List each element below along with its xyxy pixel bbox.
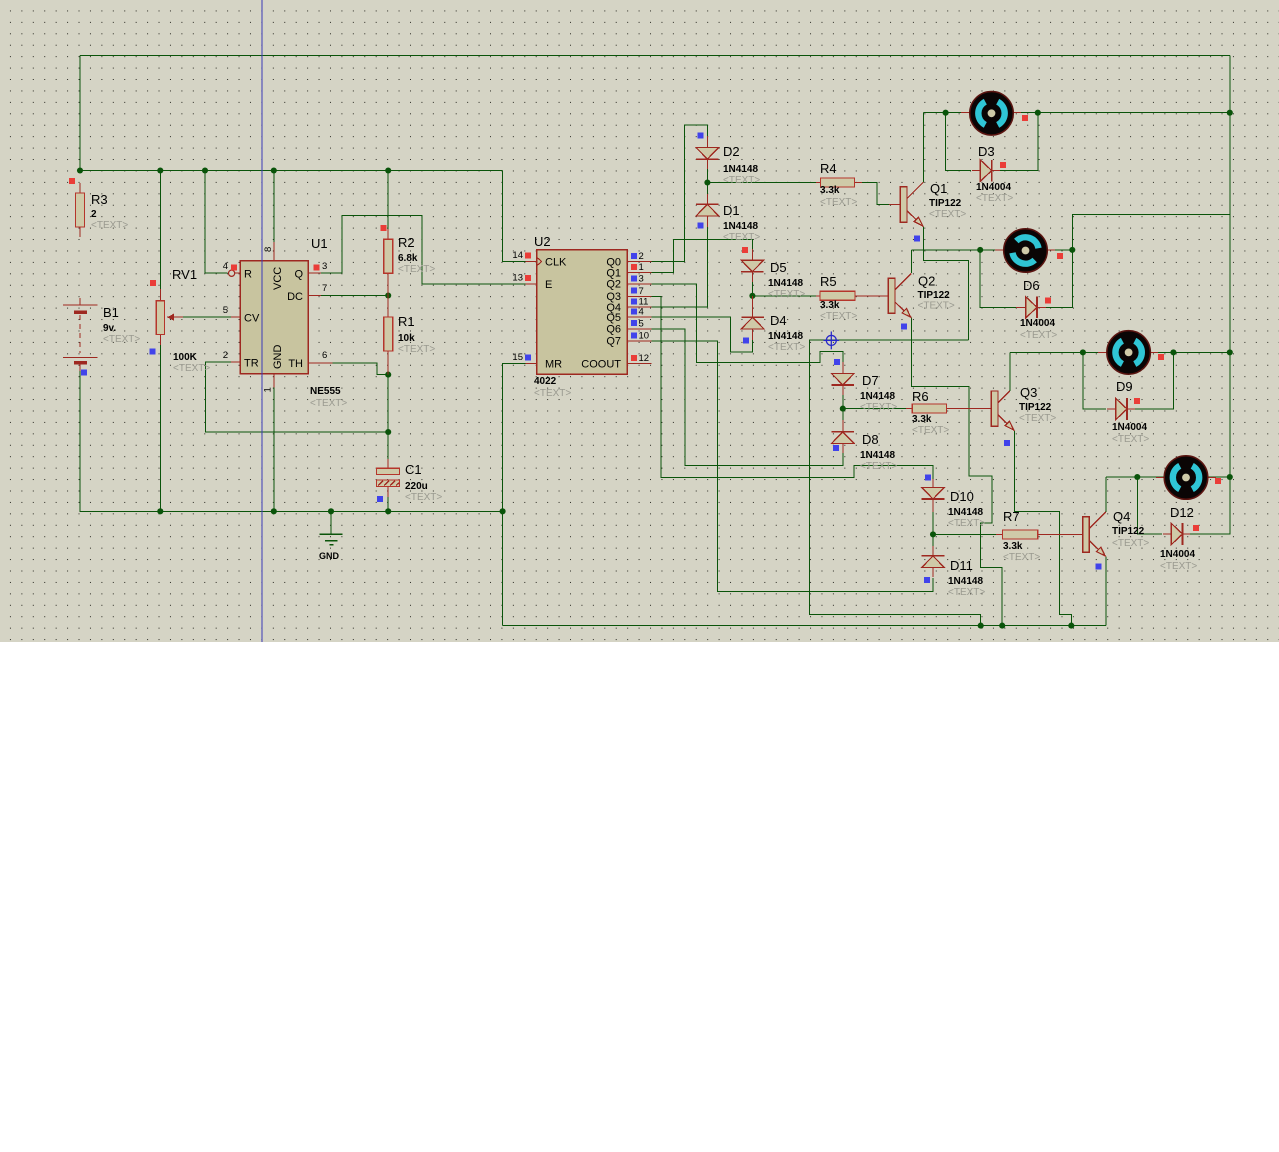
motor M1: [970, 92, 1014, 136]
svg-text:<TEXT>: <TEXT>: [1112, 434, 1149, 445]
svg-text:14: 14: [512, 250, 523, 261]
marker D4: [743, 338, 749, 344]
marker D11: [924, 577, 930, 583]
junction M3 row / right rail: [1227, 349, 1233, 355]
U2 pin 10 Q7 stub: [627, 340, 651, 342]
lead D12: [1163, 533, 1171, 535]
diode D2: [696, 148, 719, 160]
svg-text:Q1: Q1: [930, 181, 947, 196]
junction M2 row / D6 left: [977, 247, 983, 253]
svg-text:E: E: [545, 279, 552, 291]
wire Q1 collector riser: [923, 113, 925, 183]
svg-text:<TEXT>: <TEXT>: [398, 264, 435, 275]
wire rail to R2 top: [387, 171, 389, 231]
marker R2: [381, 225, 387, 231]
lead D2: [706, 136, 708, 148]
lead motor M2: [995, 249, 1004, 251]
marker C1: [377, 496, 383, 502]
svg-text:9v.: 9v.: [103, 323, 116, 334]
wire Q2 collector riser: [911, 250, 913, 273]
wire U1 TH to R1 node: [330, 363, 388, 375]
ground symbol: [330, 511, 332, 534]
U2 pin 1 Q1 stub: [627, 272, 651, 274]
svg-text:<TEXT>: <TEXT>: [1020, 330, 1057, 341]
marker D10: [925, 475, 931, 481]
svg-text:1N4148: 1N4148: [948, 507, 983, 518]
wire node to R6: [843, 408, 908, 410]
wire D9 left riser: [1083, 352, 1106, 409]
lead D3: [972, 170, 980, 172]
wire D3 left riser: [946, 113, 971, 171]
junction M3 row / D9 right: [1170, 349, 1176, 355]
wire R4 to Q1 base: [854, 183, 891, 205]
svg-text:1N4148: 1N4148: [860, 391, 895, 402]
U1 pin 2 TR stub: [231, 361, 240, 363]
marker M1: [1022, 115, 1028, 121]
svg-text:1N4148: 1N4148: [948, 576, 983, 587]
wire C1 to ground rail: [387, 488, 389, 511]
junction M1 row / right rail: [1227, 110, 1233, 116]
svg-text:TIP122: TIP122: [918, 290, 951, 301]
wire battery+ to top rail: [79, 56, 81, 171]
svg-text:MR: MR: [545, 359, 562, 371]
svg-text:C1: C1: [405, 462, 422, 477]
diode D3: [980, 160, 991, 182]
wire D6 left riser: [980, 250, 1018, 307]
diode D11: [922, 556, 945, 568]
svg-text:1N4148: 1N4148: [768, 331, 803, 342]
junction D5 D4 R5 node: [749, 293, 755, 299]
wire +9V top rail: [80, 55, 1230, 57]
wire M2 row: [912, 249, 1073, 251]
svg-text:B1: B1: [103, 305, 119, 320]
origin marker: [824, 332, 840, 350]
svg-text:<TEXT>: <TEXT>: [820, 311, 857, 322]
potentiometer RV1: [156, 301, 164, 335]
U1 pin 4 R stub with inversion bubble: [235, 272, 240, 274]
wire rail to RV1 top: [159, 171, 161, 291]
diode D1: [696, 204, 719, 216]
junction ground / RV1: [157, 508, 163, 514]
motor M3: [1107, 331, 1151, 375]
svg-text:TH: TH: [288, 358, 303, 370]
diode D5: [741, 260, 764, 272]
lead motor M4: [1156, 477, 1164, 479]
lead C1: [387, 459, 389, 468]
wire node to R4: [707, 182, 816, 184]
svg-text:<TEXT>: <TEXT>: [173, 363, 210, 374]
resistor R6: [912, 404, 946, 413]
wire node to R7: [933, 533, 998, 535]
wire RV1 bottom to ground rail: [159, 336, 161, 511]
svg-text:D10: D10: [950, 489, 974, 504]
svg-text:<TEXT>: <TEXT>: [820, 197, 857, 208]
svg-text:U1: U1: [311, 236, 328, 251]
svg-text:1N4004: 1N4004: [976, 182, 1011, 193]
svg-text:<TEXT>: <TEXT>: [310, 398, 347, 409]
wire Q2 emitter return: [912, 318, 1003, 626]
marker D3: [1000, 162, 1006, 168]
svg-text:COOUT: COOUT: [581, 359, 621, 371]
junction M1 row / D3 left: [943, 110, 949, 116]
svg-text:3: 3: [322, 261, 327, 272]
resistor R5: [820, 291, 855, 300]
junction ground / U1 GND: [271, 508, 277, 514]
marker R3: [69, 178, 75, 184]
svg-text:6.8k: 6.8k: [398, 253, 418, 264]
svg-text:<TEXT>: <TEXT>: [1019, 413, 1056, 424]
svg-text:<TEXT>: <TEXT>: [912, 425, 949, 436]
marker U2 output pins: [631, 253, 637, 259]
transistor Q3: [991, 391, 998, 426]
svg-text:2: 2: [223, 350, 228, 361]
svg-text:DC: DC: [287, 291, 303, 303]
wire RV1 wiper to U1 CV: [181, 316, 232, 318]
svg-text:5: 5: [223, 305, 228, 316]
wire U2 Q3 to D10: [649, 296, 933, 487]
junction rail / U1 reset: [202, 167, 208, 173]
wire D6 right riser: [1044, 250, 1072, 307]
transistor Q4: [1083, 517, 1090, 552]
junction ground / GND symbol: [328, 508, 334, 514]
marker D6: [1045, 298, 1051, 304]
marker Q3: [1004, 440, 1010, 446]
U2 pin 15 MR stub: [525, 363, 536, 365]
diode D9: [1116, 398, 1127, 420]
svg-text:TIP122: TIP122: [1019, 402, 1052, 413]
svg-text:1N4004: 1N4004: [1160, 549, 1195, 560]
wire right motor supply rail: [1229, 56, 1231, 477]
U2 clock chevron: [537, 257, 542, 266]
marker B1: [81, 369, 87, 375]
wire D5-D4 node: [751, 272, 753, 306]
svg-text:<TEXT>: <TEXT>: [1160, 561, 1197, 572]
wire Q1 emitter return: [924, 226, 969, 340]
lead D5: [751, 249, 753, 260]
svg-text:VCC: VCC: [272, 267, 284, 290]
junction D7 D8 R6 node: [840, 406, 846, 412]
svg-text:TIP122: TIP122: [929, 198, 962, 209]
wire M4 row: [1106, 476, 1230, 478]
wire D2-D1 node: [706, 159, 708, 204]
U1 pin 3 Q stub: [308, 272, 321, 274]
junction M4 row / right rail: [1227, 474, 1233, 480]
svg-text:13: 13: [512, 272, 523, 283]
svg-text:<TEXT>: <TEXT>: [948, 587, 985, 598]
svg-text:<TEXT>: <TEXT>: [918, 301, 955, 312]
U1 pin 1 GND stub: [273, 374, 275, 388]
lead D11: [932, 546, 934, 556]
svg-text:1N4004: 1N4004: [1112, 422, 1147, 433]
junction rail / U1 VCC: [271, 167, 277, 173]
svg-text:Q5: Q5: [606, 312, 621, 324]
wire node to R5: [752, 295, 816, 297]
lead D1: [706, 194, 708, 204]
wire D12 right riser rail: [1188, 477, 1230, 534]
wire D3 right riser: [999, 113, 1038, 171]
wire U2 MR to ground: [503, 364, 527, 626]
marker RV1 bottom: [150, 349, 156, 355]
U1 pin 6 TH stub: [308, 362, 333, 364]
svg-text:1N4004: 1N4004: [1020, 318, 1055, 329]
blue axis line: [261, 0, 263, 642]
junction D2 D1 R4 node: [704, 179, 710, 185]
svg-text:CV: CV: [244, 313, 260, 325]
motor M4: [1164, 456, 1208, 500]
wire Q4 collector riser: [1105, 477, 1107, 512]
lead RV1: [159, 289, 161, 301]
svg-text:3.3k: 3.3k: [820, 185, 840, 196]
svg-text:15: 15: [512, 352, 523, 363]
resistor R1: [384, 317, 393, 351]
wire rail to U1 VCC pin8: [273, 171, 275, 243]
lead R5: [816, 295, 820, 297]
lead D8: [842, 420, 844, 432]
marker M3: [1158, 354, 1164, 360]
lead R7: [996, 533, 1003, 535]
svg-text:<TEXT>: <TEXT>: [1112, 538, 1149, 549]
marker D7: [834, 359, 840, 365]
svg-text:7: 7: [639, 286, 644, 297]
wire U1 Q3 to U2 E: [319, 216, 527, 284]
svg-text:R7: R7: [1003, 509, 1020, 524]
lead D6: [1016, 306, 1026, 308]
junction TR node: [385, 429, 391, 435]
diode D8: [832, 432, 855, 444]
diode D10: [922, 487, 945, 499]
lead R4: [816, 182, 820, 184]
svg-text:<TEXT>: <TEXT>: [1003, 552, 1040, 563]
svg-text:1N4148: 1N4148: [723, 164, 758, 175]
svg-text:3.3k: 3.3k: [1003, 541, 1023, 552]
svg-text:12: 12: [639, 353, 650, 364]
lead D9: [1107, 408, 1116, 410]
wire U1 GND pin1 to ground rail: [273, 386, 275, 511]
svg-text:Q7: Q7: [606, 336, 621, 348]
svg-text:<TEXT>: <TEXT>: [103, 334, 140, 345]
svg-text:6: 6: [322, 350, 327, 361]
svg-text:2: 2: [91, 209, 97, 220]
wire D7-D8 node: [842, 385, 844, 442]
U2 pin 4 Q5 stub: [627, 316, 651, 318]
junction rail / RV1: [157, 167, 163, 173]
U2 pin 2 Q0 stub: [627, 261, 651, 263]
svg-text:1N4148: 1N4148: [768, 278, 803, 289]
marker U2 E: [525, 275, 531, 281]
svg-text:<TEXT>: <TEXT>: [860, 461, 897, 472]
marker M2: [1057, 253, 1063, 259]
diode D4: [741, 317, 764, 329]
svg-text:R4: R4: [820, 161, 837, 176]
wire rail to U1 CLK: [503, 171, 527, 262]
wire R1 C1 column: [387, 375, 389, 462]
marker U2 MR: [525, 355, 531, 361]
U2 pin 13 E stub: [525, 283, 536, 285]
svg-text:D6: D6: [1023, 278, 1040, 293]
resistor R7: [1003, 530, 1038, 539]
svg-text:RV1: RV1: [172, 267, 197, 282]
U1 pin 5 CV stub: [231, 316, 240, 318]
svg-text:1: 1: [263, 387, 274, 392]
svg-text:U2: U2: [534, 234, 551, 249]
junction ground rail / Q3 return: [1068, 623, 1074, 629]
U1 pin 8 VCC stub: [273, 242, 275, 261]
svg-text:D7: D7: [862, 373, 879, 388]
wire U2 Q4 to D1: [649, 227, 707, 307]
op-amp U1 body NE555: [240, 261, 308, 374]
svg-text:Q: Q: [294, 269, 303, 281]
wire ground bus with origin marker: [810, 340, 981, 625]
svg-text:<TEXT>: <TEXT>: [723, 175, 760, 186]
marker D8: [833, 445, 839, 451]
wire U2 Q1 to D5: [649, 239, 752, 272]
junction D10 D11 R7 node: [930, 531, 936, 537]
svg-text:1N4148: 1N4148: [860, 450, 895, 461]
wire rail branch to M2: [1072, 214, 1230, 250]
svg-text:D1: D1: [723, 203, 740, 218]
svg-text:<TEXT>: <TEXT>: [948, 518, 985, 529]
svg-text:<TEXT>: <TEXT>: [976, 193, 1013, 204]
svg-text:3.3k: 3.3k: [912, 414, 932, 425]
svg-text:3.3k: 3.3k: [820, 300, 840, 311]
marker Q1: [914, 236, 920, 242]
motor M2: [1004, 229, 1048, 273]
svg-text:Q3: Q3: [1020, 385, 1037, 400]
wire U1 DC to R2/R1 node: [319, 295, 388, 297]
svg-text:NE555: NE555: [310, 386, 341, 397]
wire Q3 collector riser: [1009, 352, 1011, 391]
wire VCC rail y=170: [80, 170, 503, 172]
junction rail / R2: [385, 167, 391, 173]
svg-text:R6: R6: [912, 389, 929, 404]
wire U1 TR loop: [206, 362, 389, 432]
svg-text:Q2: Q2: [918, 274, 935, 289]
U2 pin 7 Q3 stub: [627, 295, 651, 297]
resistor R4: [820, 178, 854, 187]
junction VCC rail / R3: [77, 167, 83, 173]
chip U2 body 4022: [537, 250, 628, 374]
svg-text:1: 1: [639, 262, 644, 273]
U2 pin 3 Q2 stub: [627, 283, 651, 285]
svg-text:Q6: Q6: [606, 324, 621, 336]
marker RV1 top: [150, 280, 156, 286]
svg-text:R1: R1: [398, 314, 415, 329]
U1 pin 7 DC stub: [308, 295, 321, 297]
wire U2 Q7 to D11: [649, 341, 933, 591]
wire U2 Q2 to D7: [649, 284, 843, 363]
wire U2 Q0 to D2: [649, 125, 707, 262]
junction M3 row / D9 left: [1080, 349, 1086, 355]
svg-text:D8: D8: [862, 432, 879, 447]
svg-text:R5: R5: [820, 274, 837, 289]
marker U1 pin3: [314, 265, 320, 271]
diode D6: [1026, 297, 1037, 319]
marker D1: [698, 223, 704, 229]
svg-text:<TEXT>: <TEXT>: [723, 232, 760, 243]
svg-text:D3: D3: [978, 144, 995, 159]
marker Q2: [901, 324, 907, 330]
svg-text:<TEXT>: <TEXT>: [768, 342, 805, 353]
marker D2: [698, 133, 704, 139]
svg-text:4022: 4022: [534, 376, 557, 387]
svg-text:D9: D9: [1116, 379, 1133, 394]
svg-text:GND: GND: [319, 551, 340, 561]
svg-text:<TEXT>: <TEXT>: [398, 344, 435, 355]
diode D7: [832, 373, 855, 385]
marker D12: [1193, 525, 1199, 531]
marker Q4: [1096, 564, 1102, 570]
svg-text:220u: 220u: [405, 481, 428, 492]
svg-text:D4: D4: [770, 313, 787, 328]
svg-text:D12: D12: [1170, 505, 1194, 520]
svg-text:R: R: [244, 269, 252, 281]
marker D9: [1134, 398, 1140, 404]
junction ground rail / Q1 return: [978, 623, 984, 629]
U2 pin 12 COOUT stub: [627, 363, 651, 365]
svg-text:Q0: Q0: [606, 256, 621, 268]
lead R6: [906, 408, 912, 410]
lead B1: [79, 298, 81, 306]
svg-text:3: 3: [639, 273, 644, 284]
lead D4: [752, 296, 754, 318]
svg-text:CLK: CLK: [545, 257, 567, 269]
svg-text:10k: 10k: [398, 333, 415, 344]
wire M1 row: [924, 112, 1230, 114]
wire battery- to ground rail: [80, 364, 503, 511]
junction M4 row / D12 left: [1134, 474, 1140, 480]
capacitor C1: [376, 468, 399, 474]
junction R1 TH node: [385, 372, 391, 378]
svg-text:TR: TR: [244, 358, 259, 370]
svg-text:8: 8: [263, 247, 274, 252]
U2 pin 5 Q6 stub: [627, 328, 651, 330]
battery B1: [63, 304, 98, 306]
svg-text:TIP122: TIP122: [1112, 526, 1145, 537]
lead R3: [79, 183, 81, 193]
lead motor M3: [1098, 351, 1107, 353]
lead D10: [932, 479, 934, 487]
junction ground / C1: [385, 508, 391, 514]
svg-text:<TEXT>: <TEXT>: [534, 388, 571, 399]
wire M3 row: [1010, 351, 1230, 353]
marker M4: [1215, 478, 1221, 484]
U2 pin 14 CLK stub: [525, 261, 536, 263]
svg-text:5: 5: [639, 318, 644, 329]
transistor Q2: [888, 278, 895, 313]
wire Q4 emitter drop: [1105, 557, 1107, 626]
junction R2 R1 DC node: [385, 292, 391, 298]
lead R1: [387, 296, 389, 318]
junction ground / MR line: [500, 508, 506, 514]
svg-text:D2: D2: [723, 144, 740, 159]
wire D12 left riser: [1137, 477, 1162, 534]
svg-text:D11: D11: [950, 558, 973, 573]
svg-text:10: 10: [639, 330, 650, 341]
svg-text:<TEXT>: <TEXT>: [860, 402, 897, 413]
svg-text:<TEXT>: <TEXT>: [768, 289, 805, 300]
svg-text:<TEXT>: <TEXT>: [91, 220, 128, 231]
wire bottom ground rail: [503, 625, 1106, 627]
resistor R3: [76, 193, 85, 227]
svg-text:4: 4: [223, 261, 228, 272]
marker D5: [742, 247, 748, 253]
U2 pin 11 Q4 stub: [627, 306, 651, 308]
wire U2 Q6 to D8: [649, 329, 843, 466]
lead motor M1: [961, 112, 970, 114]
svg-text:Q2: Q2: [606, 279, 621, 291]
junction M2 row / D6 right: [1069, 247, 1075, 253]
svg-text:<TEXT>: <TEXT>: [405, 492, 442, 503]
